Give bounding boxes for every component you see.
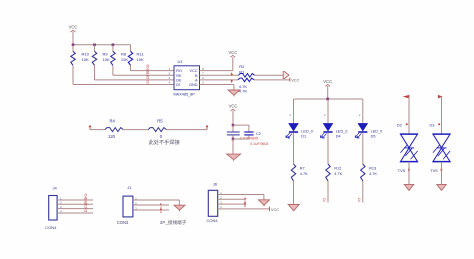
svg-text:VCC: VCC [291, 77, 299, 82]
wire U1 pin7 (B) to R2 [200, 74, 239, 76]
resistor R1 4.7K [238, 69, 254, 93]
wire VCC rail [73, 44, 131, 46]
port arrow (B line) [283, 72, 289, 79]
svg-text:D1: D1 [301, 134, 306, 138]
wire LED to R12 [327, 133, 329, 164]
svg-text:U1: U1 [178, 59, 184, 64]
capacitor C1 4.7UF/0805 [227, 125, 258, 141]
svg-text:LED_0: LED_0 [301, 129, 313, 133]
svg-text:CON3: CON3 [117, 220, 129, 225]
wire J1 pin2 [133, 204, 169, 206]
junction LED rail [326, 98, 329, 101]
wire J4 pin 2 [57, 203, 93, 205]
svg-text:CON4: CON4 [207, 218, 219, 223]
svg-text:D3: D3 [430, 124, 435, 128]
power VCC net symbol (top-left) [69, 25, 78, 45]
junction at R10/rail [72, 44, 75, 47]
value label TVS (D3) [430, 169, 442, 173]
svg-text:10K: 10K [103, 57, 110, 62]
wire U1 pin5 to GND [200, 85, 234, 91]
net tick on A wire [231, 80, 233, 83]
wire J1 pin1 to ground [133, 200, 180, 205]
svg-text:R4: R4 [110, 119, 116, 124]
ground (U1 pin5) [228, 90, 240, 96]
ground (caps) [227, 154, 241, 161]
svg-text:DI: DI [176, 83, 180, 87]
svg-text:4.7K: 4.7K [334, 172, 342, 176]
wire J4 pin 1 [57, 199, 93, 201]
svg-text:LED_0: LED_0 [371, 129, 383, 133]
connector J1 CON3 [117, 185, 133, 225]
LED D1 LED_0 [286, 124, 313, 139]
svg-text:4.7K: 4.7K [239, 88, 248, 93]
svg-text:C2: C2 [256, 132, 261, 136]
svg-text:R10: R10 [82, 52, 90, 57]
net arrow left (termination) [89, 126, 91, 130]
wire R13 down [362, 181, 364, 203]
ground (J6) [259, 200, 270, 207]
TVS diode D3 [430, 123, 451, 161]
wire J4 pin 3 [57, 208, 93, 210]
resistor R4 120 [105, 119, 123, 139]
wire rail to LED D1 [293, 99, 295, 124]
svg-text:R8: R8 [121, 52, 127, 57]
wire LED rail [294, 98, 363, 100]
wire J6 pin4 to VCC [218, 208, 270, 210]
svg-text:4.7K: 4.7K [369, 172, 377, 176]
resistor R7 4.7K [291, 164, 308, 181]
svg-text:TVS: TVS [430, 169, 438, 173]
TVS diode D2 [397, 123, 418, 161]
svg-text:RE: RE [176, 74, 182, 78]
wire cap bottom link [233, 138, 249, 140]
junction at R9/rail [93, 44, 96, 47]
wire J6 pin1 to ground [218, 195, 264, 200]
svg-text:DE: DE [84, 202, 88, 208]
svg-text:4.7K: 4.7K [300, 172, 308, 176]
resistor R5 0 [148, 119, 166, 139]
LED D5 LED_0 [355, 124, 382, 139]
svg-text:CON4: CON4 [45, 225, 57, 230]
wire R2 to port [255, 74, 284, 76]
resistor R10 10K [71, 45, 90, 66]
net arrow (D3 top) [438, 95, 443, 99]
wire R4 to R5 [123, 129, 148, 131]
svg-text:R1: R1 [239, 69, 245, 74]
svg-text:DI: DI [146, 80, 150, 83]
svg-text:DI: DI [84, 208, 88, 212]
net label (J1 pin2) [159, 203, 163, 213]
junction caps bottom [232, 138, 235, 141]
svg-text:120: 120 [108, 134, 116, 139]
svg-text:VCC: VCC [228, 50, 237, 55]
wire net to D2 [408, 97, 410, 134]
svg-text:R12: R12 [334, 166, 341, 170]
svg-text:R9: R9 [103, 52, 109, 57]
svg-text:D5: D5 [371, 134, 376, 138]
wire net to D3 [441, 97, 443, 134]
wire rail to LED D4 [327, 99, 329, 124]
svg-text:VCC: VCC [271, 207, 279, 212]
svg-text:TVS: TVS [398, 169, 406, 173]
ground (J1) [174, 205, 185, 211]
power VCC port (J6 pin4) [270, 207, 280, 213]
op-amp U1 MAX485_8P [174, 59, 200, 96]
wire to ground (caps) [232, 139, 234, 154]
svg-text:P2: P2 [323, 198, 327, 202]
svg-text:R5: R5 [157, 119, 163, 124]
svg-text:VCC: VCC [323, 79, 332, 84]
svg-text:VCC: VCC [189, 69, 197, 73]
junction at R8/rail [112, 44, 115, 47]
svg-text:0.1UF/0603: 0.1UF/0603 [250, 142, 268, 146]
svg-text:LED_0: LED_0 [336, 129, 348, 133]
svg-text:D4: D4 [336, 134, 341, 138]
svg-text:此处不手焊接: 此处不手焊接 [149, 138, 180, 146]
svg-text:DE: DE [146, 73, 150, 78]
svg-text:D2: D2 [397, 124, 402, 128]
svg-text:MAX485_8P: MAX485_8P [174, 92, 196, 96]
svg-text:10K: 10K [121, 57, 128, 62]
net label (J6 pin3) [244, 202, 246, 204]
wire U1 pin8 to VCC [200, 57, 233, 70]
wire R5 to right net arrow [167, 129, 208, 131]
wire U1 pin6 (A) to R1 [200, 79, 239, 81]
connector J6 CON4 [207, 182, 219, 223]
resistor R12 4.7K [326, 164, 343, 181]
ground arrow (D3) [437, 184, 447, 190]
ground arrow (D2) [404, 184, 414, 190]
wire J6 pin3 [218, 203, 247, 205]
wire D2 to ground arrow [408, 162, 410, 185]
wire LED to R7 [293, 133, 295, 164]
svg-text:RE: RE [146, 69, 150, 74]
power VCC symbol above U1 [228, 50, 237, 57]
svg-text:RO: RO [146, 64, 150, 69]
wire rail to LED D5 [362, 99, 364, 124]
wire J1 pin3 [133, 209, 169, 211]
net arrow (D2 top) [403, 95, 410, 99]
wire J4 pin 4 [57, 212, 93, 214]
wire LED to R13 [362, 133, 364, 164]
net label (J1 pin3) [160, 208, 162, 210]
svg-text:DE: DE [176, 79, 182, 83]
wire J6 pin2 [218, 198, 247, 200]
svg-text:3P_接线端子: 3P_接线端子 [160, 219, 187, 226]
resistor R11 10K [128, 45, 144, 66]
net tick on B wire [231, 73, 233, 76]
net arrow right (termination) [206, 126, 208, 130]
svg-text:GND: GND [189, 83, 198, 87]
wire cap top link [233, 125, 249, 132]
power VCC symbol (LEDs) [323, 79, 332, 99]
svg-text:P3: P3 [357, 198, 361, 202]
wire R10 to U1 pin4 (DI) [73, 65, 174, 84]
svg-text:RO: RO [176, 69, 182, 73]
wire R9 to U1 pin3 (DE) [95, 65, 175, 80]
resistor R2 4.7K [239, 64, 255, 89]
wire R7 to ground [293, 181, 295, 205]
resistor R13 4.7K [361, 164, 378, 181]
power VCC port on A line [290, 77, 300, 82]
ground arrow (LED branch) [288, 205, 299, 211]
power VCC symbol (caps) [229, 104, 238, 126]
wire R8 to U1 pin2 (RE) [113, 65, 174, 75]
svg-text:VCC: VCC [69, 25, 78, 30]
wire R11 to U1 pin1 (RO) [131, 65, 175, 70]
svg-text:VCC: VCC [229, 104, 238, 109]
svg-text:R11: R11 [137, 52, 145, 57]
LED D4 LED_0 [320, 124, 347, 139]
svg-text:10K: 10K [82, 57, 89, 62]
connector J4 CON4 [45, 185, 57, 230]
svg-text:10K: 10K [137, 57, 144, 62]
resistor R9 10K [92, 45, 110, 66]
wire D3 to ground arrow [441, 162, 443, 185]
junction caps top [232, 124, 235, 127]
value label TVS (D2) [398, 169, 410, 173]
svg-text:R7: R7 [300, 166, 305, 170]
wire R1 to VCC port [254, 79, 290, 81]
wire R12 down [327, 181, 329, 203]
resistor R8 10K [111, 45, 129, 66]
net label (J6 pin2) [243, 197, 247, 207]
wire left to R4 [90, 129, 105, 131]
svg-text:R13: R13 [369, 166, 376, 170]
capacitor C2 0.1UF/0603 [244, 132, 268, 146]
